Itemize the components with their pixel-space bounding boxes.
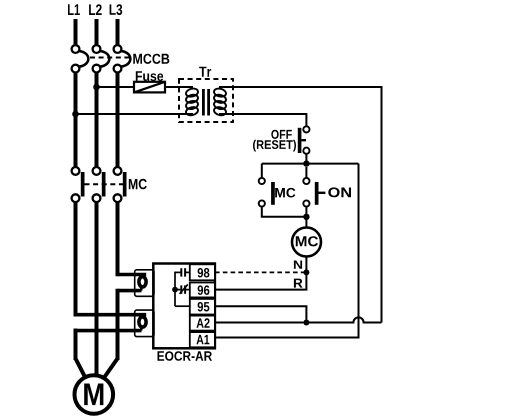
node L1 label [68, 4, 80, 15]
wire L3 drop [116, 19, 120, 45]
label Fuse [136, 71, 163, 81]
label Tr [199, 67, 211, 77]
wire L1 motor lead diagonal [76, 359, 86, 378]
fuse F1 [134, 82, 165, 93]
node coil junction [303, 214, 309, 220]
wire L2 MCCB to MC [95, 72, 99, 167]
wire transformer secondary bottom to OFF button [219, 114, 306, 126]
label 96 [198, 285, 210, 295]
wire L1 to transformer [76, 113, 194, 115]
label OFF [271, 130, 292, 139]
wire L3 MC to CT1 [116, 202, 120, 276]
breaker MCCB pole 1 [72, 45, 89, 72]
EOCR internal common line [174, 272, 176, 307]
wire L3 CT1 to motor [116, 289, 120, 360]
breaker MCCB pole 3 [114, 45, 131, 72]
pushbutton ON NO [303, 167, 325, 217]
node fuse tap on L2 [93, 84, 100, 91]
node A2 line junction [303, 320, 309, 326]
wire L2 MC to motor [95, 202, 99, 376]
CT window 1 [135, 270, 154, 297]
label R [294, 279, 303, 288]
label MC aux [275, 188, 295, 198]
label EOCR-AR [158, 351, 213, 361]
EOCR internal link to 95 [175, 305, 190, 307]
wire L1 MC to CT2 [74, 202, 78, 316]
label RESET [253, 140, 296, 152]
wire 98 dashed [215, 271, 306, 273]
wire L3 motor lead diagonal [105, 359, 118, 378]
contact MC main pole 1 [72, 167, 85, 202]
node control rail junction [303, 160, 309, 166]
wire L3 through CT1 [118, 275, 147, 291]
wire control rail horizontal [262, 163, 359, 165]
motor M [75, 375, 114, 414]
transformer Tr [179, 79, 233, 122]
node L3 label [110, 4, 123, 15]
wire L1 through CT2 [76, 315, 147, 331]
wire L1 CT2 to motor [74, 329, 78, 361]
label MC main [129, 179, 147, 190]
label A2 [197, 318, 210, 327]
breaker MCCB pole 2 [93, 45, 110, 72]
terminal 95 [190, 299, 215, 315]
contact MC auxiliary NO [259, 164, 307, 217]
coil MC [292, 228, 321, 257]
label 98 [198, 268, 210, 278]
wire A1 line to control rail [215, 164, 359, 338]
terminal 96 [190, 283, 215, 298]
label MC coil [296, 236, 318, 246]
wire L1 drop [74, 19, 78, 45]
node lower tap on L1 [72, 111, 79, 118]
terminal 98 [190, 264, 215, 280]
contact MC main pole 3 [114, 167, 127, 202]
wire A2 line with hop [215, 317, 382, 322]
wire L2 to fuse [97, 86, 135, 88]
EOCR internal contact 98 NO [175, 268, 190, 276]
MC main linkage dashed [85, 183, 128, 185]
relay EOCR-AR body [153, 264, 215, 349]
wire fuse to transformer [165, 86, 193, 88]
wire junction to coil [305, 217, 307, 228]
pushbutton OFF (RESET) NC [298, 126, 310, 153]
EOCR internal contact 96 NC [172, 284, 190, 293]
terminal A2 [190, 316, 215, 331]
node N junction [303, 269, 309, 275]
contact MC main pole 2 [93, 167, 106, 202]
wire 95 to A2 line [215, 306, 306, 322]
label A1 [197, 335, 210, 344]
wire N node down to 96 line [215, 272, 306, 289]
MCCB linkage dashed [90, 57, 131, 59]
node L2 label [89, 4, 102, 15]
label N [294, 261, 302, 269]
label M motor [84, 384, 103, 406]
CT window 2 [135, 310, 154, 337]
label 95 [198, 302, 210, 312]
wire L3 MCCB to MC [116, 72, 120, 167]
wire L2 drop [95, 19, 99, 45]
label MCCB [133, 54, 169, 64]
terminal A1 [190, 332, 215, 347]
wire transformer secondary top to right rail [219, 87, 382, 323]
label ON [328, 187, 351, 197]
wire coil to N node [305, 257, 307, 273]
wire L1 MCCB to MC [74, 72, 78, 167]
wire OFF to control rail [305, 154, 307, 164]
